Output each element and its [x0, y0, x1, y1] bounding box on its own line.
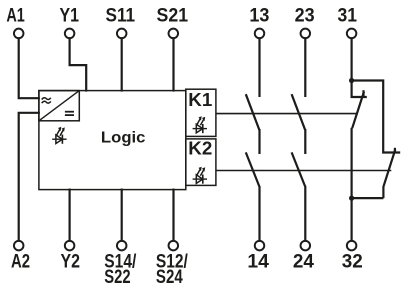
- svg-text:31: 31: [338, 6, 358, 27]
- terminal 24: [301, 241, 311, 251]
- svg-text:S22: S22: [104, 267, 130, 288]
- svg-text:24: 24: [293, 251, 314, 272]
- terminal A2: [14, 241, 24, 251]
- power supply unit U1: [39, 91, 79, 121]
- terminal A1: [14, 29, 24, 39]
- terminal 32: [347, 241, 357, 251]
- LED D3 (K2 box): [193, 167, 207, 184]
- logic box: [39, 91, 186, 190]
- terminal Y1: [65, 29, 75, 39]
- wire 23-24 mid: [304, 129, 306, 154]
- terminal 23: [301, 29, 311, 39]
- svg-text:S11: S11: [106, 6, 136, 27]
- wire Y1 to logic box: [70, 38, 87, 91]
- terminal Y2: [65, 241, 75, 251]
- wire NC bottom link: [352, 197, 384, 199]
- svg-text:Y2: Y2: [61, 251, 81, 272]
- wire 24 bottom: [304, 186, 306, 241]
- wire S11: [121, 38, 123, 91]
- terminal 31: [347, 29, 357, 39]
- svg-text:Y1: Y1: [59, 6, 79, 27]
- wire 13 top: [258, 38, 260, 97]
- wire S21: [172, 38, 174, 91]
- svg-text:23: 23: [295, 6, 315, 27]
- AC tilde symbol: [42, 98, 51, 103]
- svg-text:K2: K2: [188, 139, 212, 160]
- contact K1 arm 13-14: [246, 94, 259, 130]
- junction top NC: [349, 78, 354, 83]
- svg-text:32: 32: [342, 251, 363, 272]
- power supply diagonal: [39, 91, 79, 121]
- svg-text:A2: A2: [11, 251, 30, 272]
- terminal S21: [169, 29, 179, 39]
- NC K2 stop bar: [394, 148, 396, 154]
- wire A2 from power unit: [19, 113, 40, 241]
- svg-text:K1: K1: [188, 90, 212, 111]
- terminal 14: [255, 241, 265, 251]
- contact K1 arm 23-24: [292, 94, 306, 130]
- wire 14 bottom: [258, 186, 260, 241]
- actuation line K1: [216, 113, 357, 115]
- svg-text:A1: A1: [6, 6, 25, 27]
- relay box K2: [186, 139, 216, 186]
- contact K2 arm 13-14: [246, 152, 259, 186]
- terminal S11: [117, 29, 127, 39]
- wire A1 to power unit: [19, 38, 40, 98]
- actuation line K2: [216, 170, 391, 172]
- LED D2 (K1 box): [193, 116, 207, 133]
- terminal S14/S22: [117, 241, 127, 251]
- contact K2 arm 23-24: [292, 152, 306, 186]
- NC K1 contact arm: [352, 92, 364, 129]
- wire NC K1 fixed: [352, 81, 367, 98]
- wire 32 bottom: [351, 128, 353, 241]
- wire NC bypass branch: [352, 81, 401, 153]
- terminal 13: [255, 29, 265, 39]
- wire Y2: [68, 189, 70, 241]
- svg-text:S21: S21: [157, 6, 189, 27]
- wire 13-14 mid: [258, 129, 260, 154]
- DC symbol: [65, 112, 74, 115]
- wire S12/S24: [172, 189, 174, 241]
- svg-text:S24: S24: [156, 267, 183, 288]
- svg-text:Logic: Logic: [101, 130, 146, 147]
- svg-text:13: 13: [249, 6, 269, 27]
- NC K2 contact arm: [383, 149, 395, 198]
- wire S14/S22: [121, 189, 123, 241]
- NC K1 stop bar: [362, 90, 364, 98]
- LED D1 (logic box): [52, 127, 66, 144]
- junction bottom NC: [349, 196, 354, 201]
- terminal S12/S24: [169, 241, 179, 251]
- svg-text:14: 14: [247, 251, 269, 272]
- wire 23 top: [304, 38, 306, 97]
- relay box K1: [186, 89, 216, 136]
- wire 31 top: [351, 38, 353, 80]
